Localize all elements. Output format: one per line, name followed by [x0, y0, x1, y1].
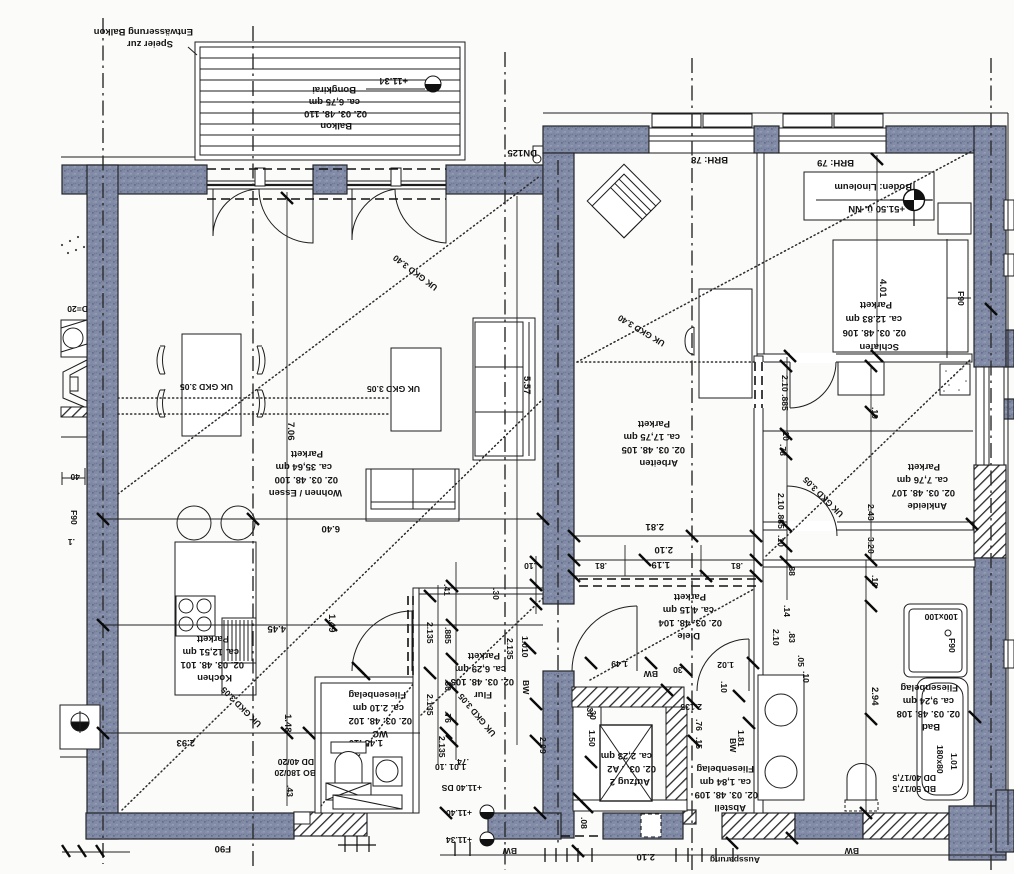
svg-text:02. 03. . A2: 02. 03. . A2	[607, 763, 656, 774]
right outer wall hatched pier	[974, 465, 1006, 558]
wardrobe line 1	[763, 430, 973, 432]
svg-text:.10: .10	[719, 681, 729, 693]
svg-text:02. 03. 48. 108: 02. 03. 48. 108	[897, 708, 960, 719]
svg-text:+51.50 ü. NN: +51.50 ü. NN	[848, 203, 905, 214]
svg-text:Parkett: Parkett	[196, 633, 229, 644]
svg-text:Bad: Bad	[922, 721, 940, 732]
svg-text:2.10 .885: 2.10 .885	[780, 375, 790, 411]
right wall stub 2	[999, 399, 1014, 419]
door 2 opening	[347, 181, 446, 189]
door Diele->corridor arc	[697, 639, 749, 691]
svg-text:DD 40/20: DD 40/20	[277, 757, 314, 767]
svg-text:BW: BW	[643, 669, 658, 679]
svg-text:2.81: 2.81	[645, 521, 664, 532]
svg-text:.05: .05	[796, 655, 806, 667]
balcony deck	[195, 42, 465, 160]
svg-text:02. 03. 48. 110: 02. 03. 48. 110	[304, 108, 367, 119]
central wall upper	[543, 153, 574, 604]
svg-text:D=20: D=20	[67, 304, 88, 314]
svg-text:Boden: Linoleum: Boden: Linoleum	[834, 181, 912, 192]
washing machine	[326, 783, 371, 800]
svg-text:2.94: 2.94	[869, 687, 880, 706]
svg-text:+11.34: +11.34	[446, 835, 472, 845]
svg-text:02. 03. 48. 102: 02. 03. 48. 102	[349, 715, 412, 726]
svg-text:02. 03. 48. 101: 02. 03. 48. 101	[180, 659, 244, 670]
DN125 stub	[533, 146, 543, 163]
Flur walls	[413, 588, 543, 813]
svg-text:F90: F90	[69, 510, 79, 525]
svg-text:ca. 1,84 qm: ca. 1,84 qm	[700, 776, 751, 787]
WC door arc	[352, 611, 412, 671]
leader dots top-left	[61, 236, 85, 254]
bracket shape	[63, 360, 87, 408]
kitchen	[175, 506, 256, 695]
svg-text:Kochen: Kochen	[197, 672, 232, 683]
vertical corridor wall below	[754, 356, 763, 813]
svg-text:DN125: DN125	[507, 147, 537, 158]
svg-text:.76: .76	[694, 719, 704, 731]
neighbour boxes right edge	[1004, 200, 1014, 668]
dimension lines	[103, 155, 877, 813]
svg-text:Parkett: Parkett	[290, 448, 323, 459]
svg-text:BRH: 79: BRH: 79	[817, 157, 854, 168]
shower	[904, 604, 967, 677]
svg-text:.30: .30	[585, 705, 595, 717]
right outer wall upper	[974, 126, 1006, 367]
sofa wide	[366, 469, 459, 521]
bottom wall segments	[86, 813, 294, 839]
sign box	[804, 172, 934, 220]
WC room	[315, 677, 419, 813]
top wall right of balcony doors	[446, 165, 543, 194]
svg-text:BRH: 78: BRH: 78	[691, 154, 728, 165]
svg-text:2.10: 2.10	[637, 851, 656, 862]
svg-text:ca. 2.10 qm: ca. 2.10 qm	[353, 702, 404, 713]
svg-text:.81: .81	[595, 561, 607, 571]
svg-text:02. 03. 48. 104: 02. 03. 48. 104	[658, 617, 722, 628]
svg-text:180x80: 180x80	[935, 745, 945, 774]
svg-text:ca. 6,75 qm: ca. 6,75 qm	[309, 96, 360, 107]
svg-text:1.01: 1.01	[949, 753, 959, 770]
Diele dashed BW wall	[579, 578, 756, 580]
svg-text:ca. 17,75 qm: ca. 17,75 qm	[623, 431, 680, 442]
svg-text:F90: F90	[215, 843, 231, 854]
corridor dashed wall segment	[753, 362, 764, 408]
svg-text:.885: .885	[443, 627, 453, 644]
right wall window recess	[976, 367, 1004, 465]
svg-text:ca. 12.83 qm: ca. 12.83 qm	[845, 313, 902, 324]
svg-text:.10: .10	[524, 561, 536, 571]
svg-text:2.135: 2.135	[505, 638, 515, 660]
shelf	[333, 795, 402, 809]
svg-text:BW: BW	[728, 738, 738, 753]
svg-text:F90: F90	[956, 291, 966, 306]
svg-text:BD 50/17,5: BD 50/17,5	[892, 784, 936, 794]
bath top wall	[763, 560, 975, 567]
svg-text:02. 03. 48. 100: 02. 03. 48. 100	[275, 474, 338, 485]
step ticks under WC	[338, 836, 376, 852]
svg-text:Parkett: Parkett	[859, 299, 892, 310]
swings door1	[213, 189, 260, 236]
svg-text:2.135: 2.135	[437, 736, 447, 758]
svg-text:BO 180/20: BO 180/20	[274, 768, 316, 778]
armchair rotated (Arbeiten)	[587, 164, 661, 238]
bed	[833, 239, 971, 358]
box with circle lower left	[60, 705, 100, 749]
lintel dashes over balcony doors	[207, 168, 446, 170]
svg-text:2.10: 2.10	[771, 629, 781, 646]
svg-text:Parkett: Parkett	[673, 591, 706, 602]
svg-text:Arbeiten: Arbeiten	[639, 457, 678, 468]
svg-text:4.45: 4.45	[267, 623, 286, 634]
svg-text:Fliesenbelag: Fliesenbelag	[348, 689, 406, 700]
nightstand 2	[838, 362, 884, 395]
svg-text:Wohnen / Essen: Wohnen / Essen	[269, 487, 342, 498]
svg-text:.81: .81	[731, 561, 743, 571]
svg-text:ca. 7,76 qm: ca. 7,76 qm	[897, 474, 948, 485]
svg-text:.43: .43	[285, 785, 295, 797]
svg-text:1.19: 1.19	[652, 559, 671, 570]
svg-text:Diele: Diele	[677, 630, 700, 641]
toilet bath	[847, 764, 876, 801]
svg-text:2.135: 2.135	[680, 702, 702, 712]
hatch strip	[61, 407, 87, 417]
top wall left section	[62, 165, 207, 194]
D=20 downpipe	[61, 320, 87, 357]
door 1 opening	[207, 181, 313, 189]
bathtub	[917, 678, 968, 800]
svg-text:02. 03. 48. 105: 02. 03. 48. 105	[621, 444, 685, 455]
svg-text:UK GKD 3.05: UK GKD 3.05	[367, 384, 420, 394]
svg-text:2.10: 2.10	[655, 544, 674, 555]
pier between balcony doors	[313, 165, 347, 194]
svg-text:.08: .08	[579, 817, 589, 829]
svg-text:ca. 2,23 qm: ca. 2,23 qm	[601, 750, 652, 761]
dotted diagonals	[118, 176, 540, 494]
dashed recess in bottom wall	[641, 814, 661, 837]
svg-text:Flur: Flur	[474, 689, 492, 700]
svg-text:5.57: 5.57	[521, 376, 532, 395]
svg-text:DD 40/17,5: DD 40/17,5	[892, 773, 936, 783]
tick slashes	[62, 153, 997, 857]
svg-text:+11.40 DS: +11.40 DS	[441, 783, 482, 793]
left outer wall	[87, 165, 118, 839]
svg-text:Parkett: Parkett	[907, 461, 940, 472]
svg-text:7.06: 7.06	[285, 422, 296, 441]
left outside fixtures	[60, 320, 100, 770]
interior walls right section	[754, 153, 975, 813]
washbasin unit	[758, 675, 804, 800]
wardrobe line 2	[763, 522, 973, 530]
top-left parapet line	[61, 156, 196, 158]
svg-text:1.02: 1.02	[717, 660, 734, 670]
dim rows right of central wall (Arbeiten bottom)	[438, 196, 871, 765]
Schlafen door opening + arc	[790, 353, 836, 363]
Ankleide door arc	[787, 521, 837, 531]
central wall lower	[543, 671, 574, 838]
nightstand	[938, 203, 971, 234]
svg-text:ca. 6,29 qm: ca. 6,29 qm	[455, 663, 506, 674]
svg-text:1.50: 1.50	[587, 730, 597, 747]
svg-text:BW: BW	[844, 846, 859, 856]
washbasin WC	[373, 757, 402, 786]
extra dim texts corridor/diele	[771, 629, 781, 646]
svg-text:ca. 9,24 qm: ca. 9,24 qm	[903, 695, 954, 706]
svg-text:UK GKD 3.05: UK GKD 3.05	[180, 382, 233, 392]
survey symbol	[890, 182, 932, 226]
svg-text:100x100: 100x100	[924, 612, 958, 622]
dashed partition above WC	[407, 596, 409, 677]
dining table + chairs	[157, 334, 265, 436]
svg-text:ca. 12,51 qm: ca. 12,51 qm	[182, 646, 239, 657]
swings door2	[352, 189, 396, 240]
texts	[94, 26, 193, 49]
svg-text:.30: .30	[491, 588, 501, 600]
svg-text:.83: .83	[787, 631, 797, 643]
toilet WC	[331, 742, 366, 753]
svg-text:40: 40	[70, 472, 80, 482]
speier leader	[188, 47, 197, 55]
svg-text:2.93: 2.93	[177, 737, 196, 748]
svg-text:BW: BW	[502, 846, 517, 856]
thin parapet line above top-right wall	[543, 112, 1008, 114]
svg-text:6.40: 6.40	[322, 523, 341, 534]
svg-text:Fliesenbelag: Fliesenbelag	[900, 682, 958, 693]
svg-text:Parkett: Parkett	[467, 650, 500, 661]
svg-text:+11.34: +11.34	[378, 75, 408, 86]
sofa tall (against central wall)	[473, 318, 535, 460]
svg-text:BW: BW	[521, 680, 531, 695]
dash-dot axes	[102, 18, 104, 864]
svg-text:Abstell: Abstell	[714, 802, 746, 813]
lift shaft	[572, 687, 684, 707]
dotted sill rect in Schlafen	[940, 364, 970, 395]
svg-text:ca. 35,64 qm: ca. 35,64 qm	[275, 461, 332, 472]
svg-text:02. 03. 48. 106: 02. 03. 48. 106	[843, 327, 906, 338]
svg-text:Entwässerung Balkon: Entwässerung Balkon	[94, 26, 193, 37]
wall Schlafen / Ankleide	[757, 354, 972, 362]
balcony doors	[207, 168, 446, 243]
svg-text:Schlafen: Schlafen	[859, 341, 899, 352]
svg-text:Aussparung: Aussparung	[710, 855, 760, 865]
svg-text:02. 03. 48. 103: 02. 03. 48. 103	[451, 676, 514, 687]
dim 40 arrows	[62, 468, 85, 485]
svg-text:2.135: 2.135	[425, 694, 435, 716]
svg-text:.14: .14	[782, 605, 792, 617]
svg-text:Speier zur: Speier zur	[127, 38, 173, 49]
svg-text:1.49: 1.49	[611, 659, 628, 669]
svg-text:.74: .74	[457, 757, 469, 767]
svg-text:Bongkirai: Bongkirai	[312, 84, 356, 95]
svg-text:02. 03. 48. 107: 02. 03. 48. 107	[892, 487, 955, 498]
svg-text:.1: .1	[68, 537, 75, 547]
coffee table	[391, 348, 441, 431]
svg-text:Ankleide: Ankleide	[907, 500, 947, 511]
svg-text:4.01: 4.01	[877, 279, 888, 298]
bath fixtures	[758, 604, 968, 811]
right wall stub to neighbour	[1006, 330, 1014, 367]
dimension texts	[322, 523, 341, 534]
wall between Arbeiten and Schlafen	[757, 153, 764, 356]
svg-text:Aufzug 2: Aufzug 2	[610, 776, 650, 787]
door living->flur arc	[572, 606, 637, 671]
svg-text:ca. 4,15 qm: ca. 4,15 qm	[663, 604, 714, 615]
svg-text:Fliesenbelag: Fliesenbelag	[696, 763, 754, 774]
svg-text:F90: F90	[947, 638, 957, 653]
bottom dimension line	[62, 852, 1006, 855]
desk + chair	[685, 289, 752, 398]
windows top right	[649, 114, 886, 153]
svg-text:.10: .10	[801, 671, 811, 683]
svg-text:Balkon: Balkon	[320, 120, 352, 131]
top wall right section (with window gaps)	[543, 126, 649, 153]
svg-text:2.135: 2.135	[425, 622, 435, 644]
right outer wall lower	[974, 558, 1006, 843]
dashed opening in bottom wall (under lift)	[561, 835, 603, 837]
WC fixtures	[326, 742, 402, 809]
diagonal labels	[391, 253, 440, 293]
svg-text:Parkett: Parkett	[637, 418, 670, 429]
svg-text:02. 03. 48. 109: 02. 03. 48. 109	[695, 789, 758, 800]
